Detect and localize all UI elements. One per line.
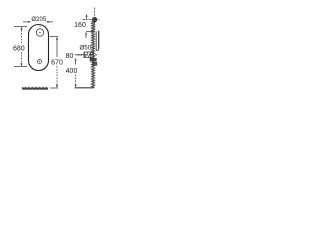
svg-text:680: 680 [13,46,25,53]
svg-text:160: 160 [74,22,86,29]
svg-text:80: 80 [66,53,74,60]
svg-text:400: 400 [66,68,78,75]
svg-text:Ø50: Ø50 [79,45,91,52]
svg-text:Ø205: Ø205 [31,16,47,23]
svg-text:670: 670 [51,60,63,67]
